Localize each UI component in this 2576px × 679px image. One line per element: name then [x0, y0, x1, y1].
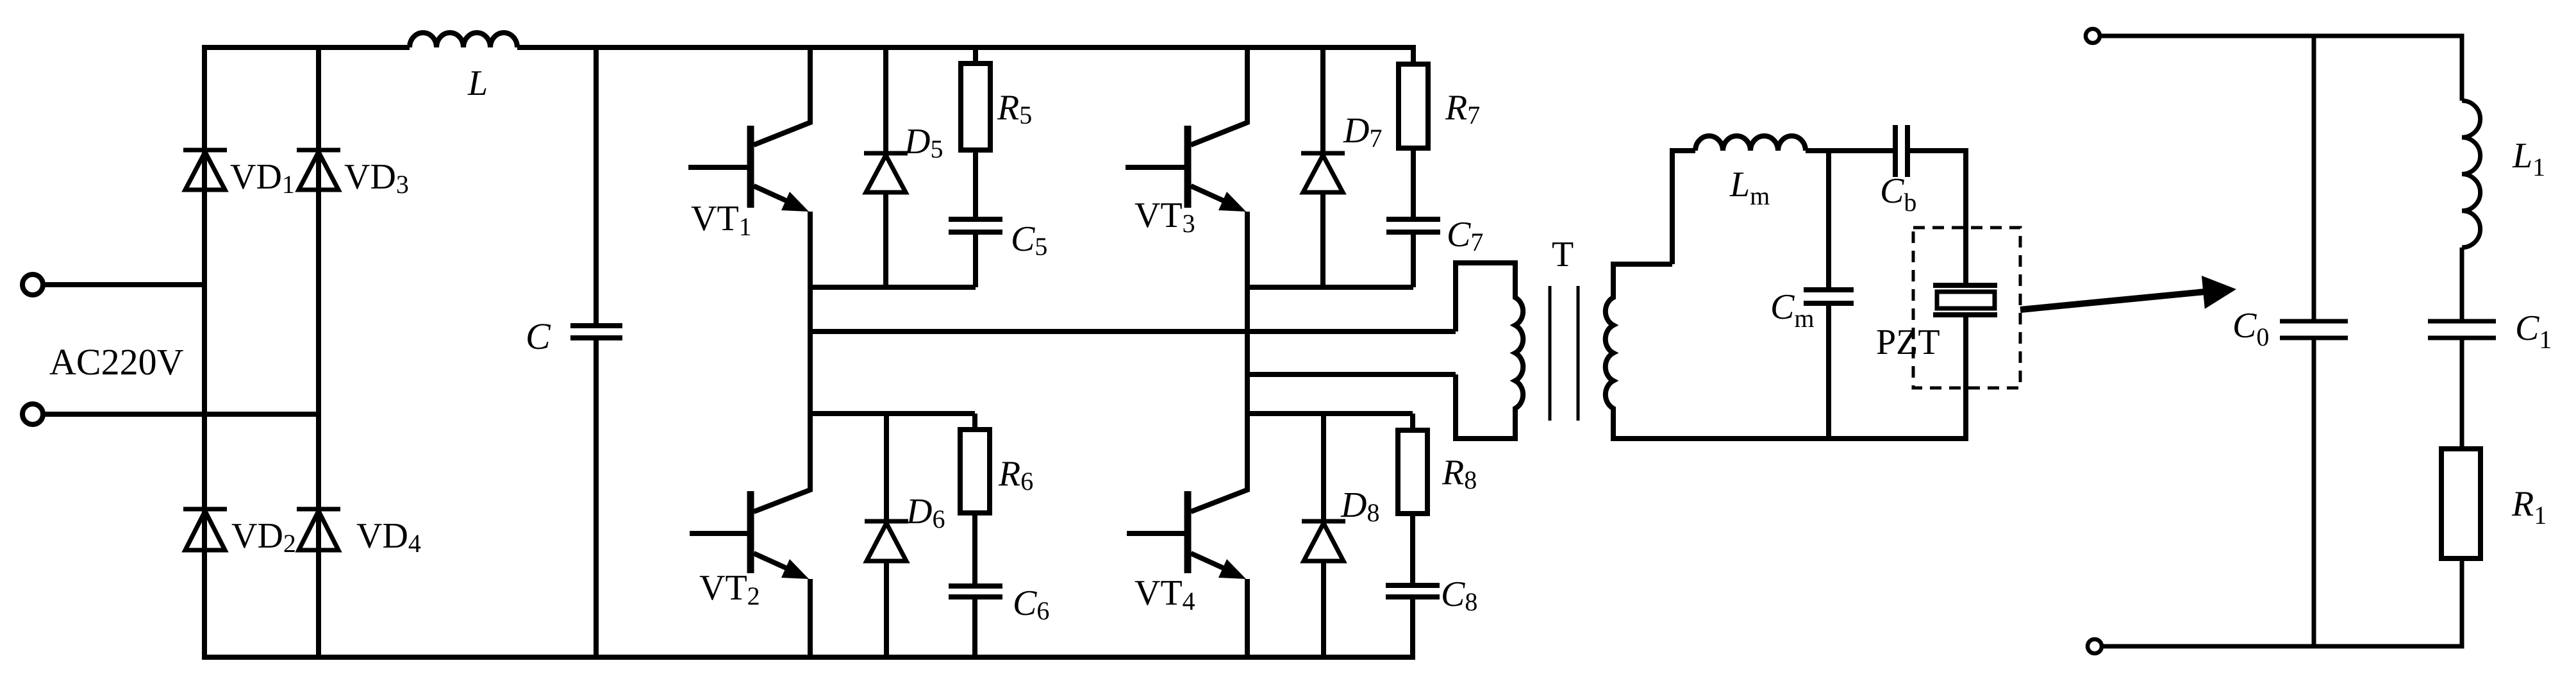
capacitor C0 branch — [2312, 36, 2316, 646]
svg-text:VT2: VT2 — [699, 568, 760, 610]
svg-text:R7: R7 — [1445, 88, 1480, 130]
transistor VT2 — [690, 414, 810, 657]
svg-text:C8: C8 — [1441, 574, 1477, 616]
terminal output lower — [2088, 639, 2102, 653]
terminal AC input lower — [22, 404, 43, 424]
capacitor C legs — [594, 47, 599, 657]
wire Lm to Cb — [1806, 148, 1893, 153]
svg-text:T: T — [1552, 235, 1574, 274]
diode D5 — [864, 47, 908, 287]
wire AC input upper — [45, 282, 205, 287]
svg-text:C0: C0 — [2232, 306, 2269, 351]
wire AC input lower — [45, 412, 319, 417]
resistor R6 — [960, 414, 990, 586]
svg-text:D6: D6 — [906, 492, 945, 533]
wire output line 1 to transformer — [810, 329, 1456, 334]
wire lower-right module connector — [1247, 411, 1413, 416]
diode D8 — [1302, 414, 1345, 657]
svg-text:R5: R5 — [997, 88, 1032, 130]
diode D6 — [865, 414, 908, 657]
resistor R8 — [1398, 414, 1427, 585]
capacitor C6 — [949, 586, 1002, 657]
diode VD1 — [183, 150, 227, 190]
svg-text:R6: R6 — [998, 454, 1033, 496]
capacitor C0 plates — [2280, 321, 2348, 338]
svg-text:VD3: VD3 — [344, 157, 409, 199]
transformer T secondary winding — [1606, 264, 1966, 439]
resistor R7 — [1399, 47, 1428, 219]
transformer T primary winding — [1456, 263, 1523, 439]
capacitor C1 plates — [2428, 321, 2496, 338]
wire upper-right module connector — [1247, 285, 1413, 290]
resistor R5 — [961, 47, 990, 219]
svg-text:Cm: Cm — [1770, 287, 1814, 333]
wire right circuit bottom rail — [2104, 558, 2462, 646]
svg-text:C: C — [526, 315, 551, 357]
capacitor C8 — [1386, 585, 1440, 597]
diode VD2 — [183, 509, 227, 550]
wire VT1-VT2 mid leg — [808, 331, 813, 414]
svg-text:AC220V: AC220V — [49, 341, 184, 383]
svg-text:PZT: PZT — [1876, 323, 1940, 362]
PZT crystal — [1933, 285, 1997, 315]
svg-text:Lm: Lm — [1729, 165, 1770, 210]
svg-text:L1: L1 — [2512, 136, 2545, 181]
capacitor Cm plates — [1804, 290, 1854, 303]
inductor L — [410, 33, 517, 47]
wire Cb to PZT branch — [1910, 151, 1966, 285]
svg-text:R8: R8 — [1442, 453, 1477, 494]
svg-text:C1: C1 — [2515, 308, 2552, 354]
wire top rail right segment into R7 stub — [517, 47, 1413, 64]
wire L1 to C1 — [2460, 247, 2464, 321]
svg-text:VT1: VT1 — [691, 199, 752, 241]
capacitor C7 — [1386, 219, 1440, 287]
wire right circuit top rail — [2102, 36, 2462, 101]
wire C1 to R1 — [2460, 338, 2464, 449]
svg-text:C5: C5 — [1011, 219, 1047, 261]
capacitor Cb — [1895, 125, 1907, 177]
resistor R1 — [2441, 449, 2480, 558]
wire top rail left + left leg + bottom rail + C8 stub — [204, 47, 1413, 657]
capacitor C plates — [570, 326, 622, 338]
wire output line 2 to transformer — [1247, 372, 1456, 377]
diode VD4 — [297, 509, 340, 550]
svg-text:Cb: Cb — [1880, 171, 1916, 217]
transistor VT4 — [1127, 414, 1247, 657]
svg-text:VT4: VT4 — [1134, 573, 1195, 616]
wire upper-left module connector — [810, 285, 976, 290]
svg-text:D5: D5 — [904, 122, 943, 163]
terminal AC input upper — [22, 274, 43, 295]
inductor L1 — [2462, 101, 2480, 247]
PZT dashed box — [1913, 228, 2020, 388]
transistor VT3 — [1126, 47, 1247, 374]
capacitor Cm branch — [1826, 151, 1831, 439]
svg-text:D7: D7 — [1343, 111, 1382, 153]
transformer T core — [1550, 286, 1578, 421]
capacitor C5 — [949, 219, 1002, 287]
wire VT3-VT4 mid leg — [1245, 374, 1250, 414]
diode VD3 — [297, 150, 340, 190]
svg-text:VD1: VD1 — [230, 157, 295, 199]
wire secondary top riser — [1672, 151, 1695, 264]
svg-text:L: L — [467, 63, 488, 103]
svg-text:D8: D8 — [1340, 485, 1379, 527]
svg-text:C7: C7 — [1447, 215, 1483, 256]
svg-text:VD4: VD4 — [356, 516, 421, 558]
diode D7 — [1301, 47, 1345, 287]
inductor Lm — [1695, 136, 1806, 151]
arrow to equivalent circuit — [2020, 276, 2236, 310]
wire lower-left module connector — [810, 411, 975, 416]
svg-text:R1: R1 — [2511, 484, 2547, 530]
terminal output upper — [2086, 29, 2100, 43]
transistor VT1 — [688, 47, 810, 331]
wire bridge right leg VD3/VD4 — [316, 47, 321, 657]
svg-text:VD2: VD2 — [231, 516, 296, 558]
svg-text:C6: C6 — [1013, 583, 1049, 625]
